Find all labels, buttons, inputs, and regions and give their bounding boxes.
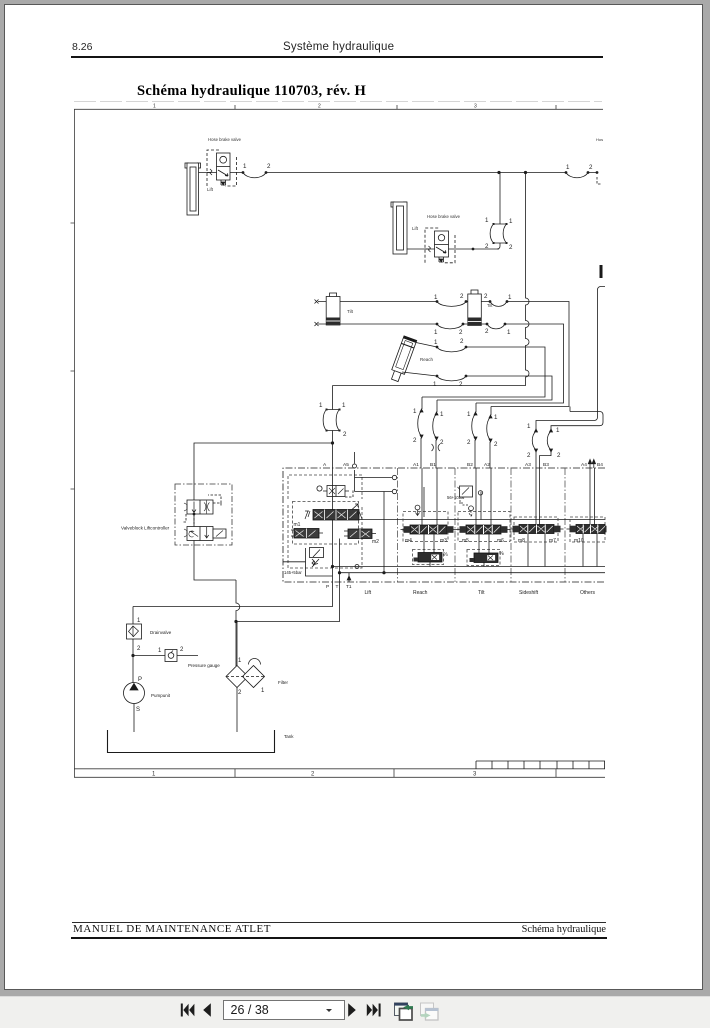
svg-text:2: 2 — [459, 381, 463, 388]
svg-text:2: 2 — [238, 690, 242, 696]
Lift label 1 — [207, 187, 214, 192]
svg-text:m2: m2 — [372, 539, 379, 545]
secondary rail — [283, 562, 605, 573]
m1 label — [294, 522, 301, 528]
drawing frame bottom ruler — [74, 769, 605, 778]
dropdown arrow of page box — [326, 1009, 332, 1012]
others feed line B3 — [551, 412, 603, 430]
hose brake valve 2 body — [435, 231, 449, 257]
svg-text:2: 2 — [460, 293, 464, 300]
svg-text:145+5bar: 145+5bar — [284, 570, 302, 575]
compensator tilt — [467, 550, 500, 566]
tank return line — [236, 582, 340, 622]
svg-text:1: 1 — [261, 688, 265, 694]
paper scan edge line — [74, 101, 602, 103]
svg-text:m10: m10 — [574, 538, 584, 544]
svg-text:T: T — [336, 584, 339, 590]
riser x384 — [383, 492, 385, 573]
footer thick rule — [71, 937, 607, 939]
header rule — [71, 56, 603, 58]
svg-text:A5: A5 — [343, 462, 349, 468]
A5 stub — [354, 452, 356, 464]
drawing frame top ruler — [74, 105, 603, 109]
svg-text:Lift: Lift — [207, 187, 214, 192]
coupling A3 — [535, 429, 537, 468]
valve m8 m7 — [519, 525, 554, 534]
pressure gauge — [165, 650, 177, 662]
svg-text:1: 1 — [137, 618, 141, 624]
relief valve 145bar — [306, 548, 333, 576]
hose brake valve 1 body — [217, 153, 231, 180]
hose break arc 1 — [243, 173, 266, 178]
svg-text:m3: m3 — [440, 538, 447, 544]
svg-text:Reach: Reach — [420, 357, 434, 362]
viewer toolbar strip — [0, 996, 710, 1028]
svg-text:P: P — [138, 677, 142, 683]
svg-text:m5: m5 — [462, 538, 469, 544]
svg-text:1: 1 — [158, 648, 162, 654]
quick coupling A — [327, 410, 340, 431]
svg-text:1: 1 — [508, 294, 512, 301]
T1 stub arrow — [347, 573, 351, 582]
last page button — [367, 1004, 378, 1016]
first page button — [181, 1004, 183, 1017]
valve m10 — [576, 525, 605, 534]
junction A to liftcontroller — [331, 442, 333, 444]
svg-text:2: 2 — [527, 452, 531, 459]
svg-text:2: 2 — [557, 452, 561, 459]
reach line top — [416, 343, 545, 398]
reach cylinder — [389, 336, 417, 383]
tilt cylinder 1 — [326, 293, 340, 325]
svg-text:1: 1 — [566, 164, 570, 171]
port labels bottom — [326, 584, 352, 590]
svg-text:3: 3 — [474, 104, 477, 110]
valve 1 bottom stub — [221, 180, 226, 185]
svg-text:2: 2 — [494, 441, 498, 448]
page number input box — [223, 1000, 345, 1020]
svg-text:3: 3 — [473, 772, 477, 778]
svg-text:m1: m1 — [294, 522, 301, 528]
m1 lever — [352, 504, 358, 510]
svg-text:B2: B2 — [467, 462, 473, 468]
quick coupling lift 2 — [494, 224, 507, 243]
svg-text:1: 1 — [494, 414, 498, 421]
Lift label 2 — [412, 226, 419, 231]
valve 1 spring — [207, 169, 212, 175]
valve block border — [283, 468, 605, 582]
controller valve 2 — [187, 527, 213, 541]
coupling B1 — [436, 400, 437, 468]
m1 sub dashed box — [293, 502, 359, 545]
svg-text:1: 1 — [434, 294, 438, 301]
clipped bar right edge — [600, 265, 603, 278]
svg-text:m4: m4 — [405, 538, 412, 544]
drain valve — [127, 624, 142, 639]
wire to liftcontroller — [194, 443, 333, 484]
svg-text:2: 2 — [460, 338, 464, 345]
wire riser A — [332, 386, 334, 469]
svg-text:S: S — [136, 707, 140, 713]
svg-text:⅔: ⅔ — [443, 552, 448, 558]
tilt line top — [318, 302, 569, 407]
wires m4 section — [422, 468, 437, 567]
svg-text:1: 1 — [467, 411, 471, 418]
riser to lift cylinder 2 — [497, 173, 500, 250]
valve m1 — [313, 510, 359, 521]
svg-text:1: 1 — [440, 411, 444, 418]
svg-text:Tank: Tank — [284, 734, 294, 739]
pilot relief 56+10bar — [447, 495, 465, 500]
section names — [365, 590, 596, 596]
wires m5 section — [476, 468, 491, 567]
m4 m3 dashed enclosure — [403, 512, 448, 542]
hose brake valve 1 label — [208, 137, 242, 142]
reach line bottom — [402, 372, 552, 400]
svg-text:Pressure gauge: Pressure gauge — [188, 663, 220, 668]
svg-text:Drainvalve: Drainvalve — [150, 630, 172, 635]
tilt hose arcs left pair — [437, 302, 466, 329]
svg-text:1: 1 — [434, 329, 438, 336]
svg-text:2: 2 — [467, 439, 471, 446]
svg-text:1: 1 — [319, 402, 323, 409]
Valveblock Liftcontroller label — [121, 526, 170, 531]
tank — [108, 730, 275, 753]
svg-text:Filter: Filter — [278, 680, 289, 685]
svg-text:A3: A3 — [525, 462, 531, 468]
hose brake valve 2 label — [427, 214, 461, 219]
svg-text:1: 1 — [243, 163, 247, 170]
svg-text:1: 1 — [507, 329, 511, 336]
svg-text:Pumpunit: Pumpunit — [151, 693, 171, 698]
svg-text:1: 1 — [152, 772, 156, 778]
svg-text:A: A — [323, 462, 327, 468]
header page number — [72, 41, 92, 53]
next page button — [348, 1003, 356, 1016]
m8 m7 dashed enclosure — [514, 517, 558, 542]
clipped dashed box at right edge — [597, 177, 601, 184]
svg-text:2: 2 — [180, 647, 184, 653]
svg-text:B1: B1 — [430, 462, 436, 468]
lift section dashed enclosure outer — [288, 475, 362, 568]
svg-text:1: 1 — [153, 104, 156, 110]
cylinder 1 port line — [199, 172, 217, 174]
drawing frame left border — [74, 109, 76, 777]
svg-text:Lift: Lift — [365, 590, 372, 596]
valve 2 spring — [426, 246, 431, 252]
valve m2 — [348, 529, 372, 539]
previous view button — [394, 1003, 413, 1020]
pump — [124, 683, 145, 704]
pressure gauge line — [133, 655, 198, 657]
x mark top — [315, 300, 319, 304]
svg-text:T1: T1 — [346, 584, 352, 590]
hose brake valve 1 dashed enclosure — [207, 150, 237, 186]
Reach label — [420, 357, 434, 362]
svg-text:1: 1 — [434, 339, 438, 346]
svg-text:B4: B4 — [597, 462, 603, 468]
junction at valve2 out — [472, 248, 474, 250]
hop over tank return — [236, 580, 240, 666]
wires m10 section — [583, 468, 597, 567]
svg-text:Reach: Reach — [413, 590, 428, 596]
title block cell strip — [476, 761, 605, 769]
svg-text:Tilt: Tilt — [478, 590, 485, 596]
svg-text:Hose brake valve: Hose brake valve — [208, 137, 242, 142]
tilt cylinder 2 — [468, 290, 482, 326]
svg-text:1: 1 — [238, 658, 242, 664]
previous page button — [203, 1003, 211, 1016]
node circles on riser — [355, 470, 393, 492]
svg-text:1: 1 — [527, 423, 531, 430]
svg-text:Valveblock Liftcontroller: Valveblock Liftcontroller — [121, 526, 170, 531]
svg-text:m8: m8 — [518, 538, 525, 544]
svg-text:m6: m6 — [497, 538, 504, 544]
port labels top — [323, 462, 603, 468]
section divider tilt/sideshift — [510, 468, 512, 582]
half coupling mark B1 — [432, 444, 441, 451]
controller valve 1 — [187, 500, 213, 514]
P line inside block — [332, 468, 334, 582]
svg-text:A2: A2 — [484, 462, 490, 468]
svg-text:1: 1 — [509, 218, 513, 225]
svg-text:A4: A4 — [581, 462, 587, 468]
svg-text:2: 2 — [413, 437, 417, 444]
svg-text:Hos: Hos — [596, 137, 603, 142]
Tilt label 1 — [347, 309, 354, 314]
svg-text:1: 1 — [433, 381, 437, 388]
others feed line A3 — [536, 287, 605, 430]
controller valve 2 side box — [213, 529, 226, 538]
liftcontroller dash-dot box — [175, 484, 232, 545]
svg-text:2: 2 — [318, 104, 321, 110]
m1 pilot sub valve — [294, 529, 319, 539]
x mark bottom — [315, 322, 319, 326]
svg-text:A1: A1 — [413, 462, 419, 468]
valve 2 bottom stub — [439, 257, 444, 262]
svg-text:2: 2 — [267, 163, 271, 170]
svg-text:1: 1 — [556, 427, 560, 434]
main riser x525 with hops — [333, 173, 530, 386]
stair vertical from tilt top to y411 — [569, 407, 571, 412]
coupling B3 with jog — [550, 429, 553, 432]
port stub arrow A4 — [589, 462, 591, 468]
wires m8 section — [528, 468, 545, 567]
header section title — [283, 41, 394, 53]
filter diamonds — [226, 666, 265, 688]
valve m5 m6 — [466, 525, 501, 534]
lift pilot valve — [327, 486, 345, 497]
footer chapter name — [0, 924, 606, 935]
svg-text:2: 2 — [589, 164, 593, 171]
next view button (disabled) — [421, 1003, 439, 1020]
port stub arrow B4 — [593, 462, 595, 468]
svg-text:1: 1 — [342, 402, 346, 409]
scan clip edge — [607, 500, 667, 590]
svg-text:2: 2 — [440, 439, 444, 446]
svg-text:B3: B3 — [543, 462, 549, 468]
svg-text:P: P — [326, 584, 329, 590]
main lift pressure line — [230, 172, 597, 174]
clipped text right — [596, 137, 603, 142]
coupling B2 — [475, 403, 476, 468]
pilot check m4 — [415, 505, 420, 510]
page title — [137, 83, 366, 100]
svg-text:2: 2 — [311, 772, 315, 778]
junction node top line x525 — [524, 171, 526, 173]
filter lines — [236, 622, 238, 733]
section divider sideshift/others — [564, 468, 566, 582]
svg-text:2: 2 — [343, 431, 347, 438]
svg-text:Others: Others — [580, 590, 596, 596]
valve m4 m3 — [410, 525, 447, 534]
lift cylinder 2 — [391, 202, 407, 254]
svg-text:2: 2 — [459, 329, 463, 336]
svg-text:⅜: ⅜ — [499, 551, 504, 557]
coupling A2 — [490, 407, 491, 469]
svg-text:m7: m7 — [549, 538, 556, 544]
cylinder 2 port line — [407, 248, 499, 250]
footer manual name — [73, 923, 271, 935]
lift cylinder 1 — [185, 163, 201, 215]
svg-text:2: 2 — [137, 646, 141, 652]
tank rail — [333, 566, 606, 568]
coupling A1 — [421, 397, 422, 468]
svg-text:1: 1 — [485, 217, 489, 224]
tilt hose arcs right pair — [487, 302, 507, 329]
svg-text:2: 2 — [485, 243, 489, 250]
svg-text:Hose brake valve: Hose brake valve — [427, 214, 461, 219]
T line inside block — [339, 539, 341, 583]
section divider lift/reach — [397, 468, 399, 582]
m10 dashed enclosure — [570, 517, 605, 542]
controller valve 1 pilot dashes — [208, 495, 221, 507]
main line through controller — [194, 484, 236, 580]
line drain to gauge tee — [132, 639, 134, 683]
svg-text:Sideshift: Sideshift — [519, 590, 539, 596]
tilt line bottom — [318, 324, 564, 403]
svg-text:2: 2 — [484, 293, 488, 300]
pump suction line — [133, 704, 135, 733]
pressure supply line — [133, 582, 333, 624]
compensator reach — [413, 550, 444, 565]
junction node top line x499 — [498, 171, 500, 173]
footer thin rule — [72, 922, 606, 923]
section divider reach/tilt — [454, 468, 456, 582]
pressure rail m1 to others — [359, 519, 605, 521]
hose break arc 2 — [566, 173, 588, 178]
svg-text:1: 1 — [413, 408, 417, 415]
hose brake valve 2 dashed enclosure — [425, 228, 455, 263]
svg-text:2: 2 — [509, 244, 513, 251]
Tilt label 2 — [487, 303, 493, 308]
svg-text:2: 2 — [485, 328, 489, 335]
m5 m6 dashed enclosure — [458, 512, 510, 542]
svg-text:Lift: Lift — [412, 226, 419, 231]
reach hose arcs — [437, 347, 466, 381]
pilot circle tilt — [469, 506, 474, 511]
svg-text:Tilt: Tilt — [347, 309, 354, 314]
